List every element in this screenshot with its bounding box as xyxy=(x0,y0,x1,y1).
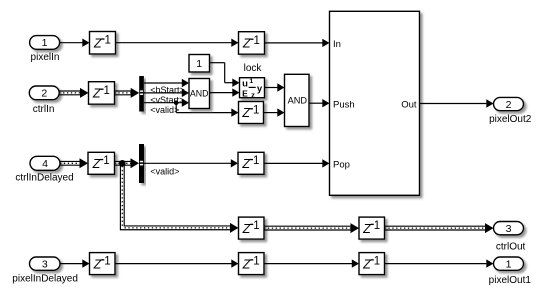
wire valid branch to delay Z3 xyxy=(176,103,238,117)
svg-text:1: 1 xyxy=(253,104,259,116)
svg-text:Z: Z xyxy=(362,222,371,236)
svg-text:Push: Push xyxy=(333,99,355,110)
signal label <vStart> xyxy=(150,95,184,105)
svg-text:1: 1 xyxy=(103,85,109,97)
inport 1 pixelIn xyxy=(30,36,60,63)
svg-text:pixelOut1: pixelOut1 xyxy=(489,275,532,286)
svg-text:Z: Z xyxy=(93,257,102,271)
svg-text:ctrlIn: ctrlIn xyxy=(33,104,55,115)
inport 4 ctrlInDelayed xyxy=(15,156,73,183)
wire Z1 to delay lock xyxy=(116,39,239,47)
svg-text:4: 4 xyxy=(42,158,48,170)
svg-text:1: 1 xyxy=(42,37,48,49)
wire hStart to AND1 input 1 xyxy=(144,79,189,87)
wire valid2 to delay Z5 xyxy=(144,159,238,167)
svg-text:y: y xyxy=(257,83,263,94)
svg-text:AND: AND xyxy=(288,95,308,105)
outport 2 pixelOut2 xyxy=(489,97,532,125)
wire valid to AND1 input 3 xyxy=(144,99,189,107)
junction valid branch xyxy=(174,100,179,105)
svg-text:1: 1 xyxy=(196,58,202,70)
svg-text:1: 1 xyxy=(253,155,259,167)
svg-text:Z: Z xyxy=(242,37,251,51)
svg-text:Z: Z xyxy=(241,106,250,120)
signal label <valid> 2 xyxy=(150,166,179,176)
svg-text:<valid>: <valid> xyxy=(150,105,179,115)
svg-text:1: 1 xyxy=(374,220,380,232)
wire AND1 to enabled-delay E port xyxy=(210,88,240,96)
bus wire Z6 to delay Z7 xyxy=(264,223,359,233)
svg-text:1: 1 xyxy=(253,255,259,267)
svg-text:z: z xyxy=(251,90,255,99)
signal label <valid> xyxy=(150,105,179,115)
svg-text:2: 2 xyxy=(506,99,512,111)
svg-text:Z: Z xyxy=(241,157,250,171)
svg-text:1: 1 xyxy=(249,78,253,85)
svg-text:In: In xyxy=(333,39,341,50)
svg-text:1: 1 xyxy=(374,255,380,267)
enabled delay block (u E z y) xyxy=(240,78,265,100)
wire lock to subsystem In xyxy=(265,39,330,47)
inport 2 ctrlIn xyxy=(29,86,59,115)
delay Z3 (valid delay) xyxy=(239,102,264,124)
signal label <hStart> xyxy=(150,85,185,95)
svg-text:Z: Z xyxy=(362,257,371,271)
svg-text:3: 3 xyxy=(42,258,48,270)
wire enabled-delay y to AND2 input 1 xyxy=(265,83,285,91)
delay Z2 xyxy=(89,82,115,105)
constant 1 xyxy=(189,55,210,73)
junction bus branch xyxy=(119,160,126,167)
outport 3 ctrlOut xyxy=(494,222,526,253)
svg-text:pixelIn: pixelIn xyxy=(31,52,60,63)
svg-text:Z: Z xyxy=(93,36,102,50)
svg-text:1: 1 xyxy=(103,155,109,167)
svg-text:3: 3 xyxy=(506,223,512,235)
subsystem FIFO (In Push Pop / Out) xyxy=(330,11,420,195)
bus wire ctrlInDelayed to delay Z4 xyxy=(60,158,88,168)
svg-text:1: 1 xyxy=(104,35,110,47)
svg-text:Z: Z xyxy=(242,222,251,236)
svg-text:AND: AND xyxy=(190,89,209,99)
bus selector 2 xyxy=(139,144,144,183)
bus wire Z4 to bus selector 2 xyxy=(115,158,140,168)
logical operator AND2 xyxy=(285,74,310,126)
wire Z8 to delay Z9 xyxy=(115,259,239,267)
delay Z7 xyxy=(359,217,385,239)
bus wire Z7 to outport ctrlOut xyxy=(385,223,494,233)
svg-text:<vStart>: <vStart> xyxy=(150,95,184,105)
svg-text:Z: Z xyxy=(242,257,251,271)
svg-text:1: 1 xyxy=(506,258,512,270)
wire constant to enabled-delay u port xyxy=(210,63,240,87)
svg-text:1: 1 xyxy=(253,220,259,232)
inport 3 pixelInDelayed xyxy=(12,257,78,285)
delay Z1 xyxy=(90,32,116,55)
svg-text:Z: Z xyxy=(92,157,101,171)
wire Z3 to AND2 input 2 xyxy=(264,108,285,116)
delay Z6 xyxy=(239,217,265,239)
delay Z10 xyxy=(359,253,385,275)
delay Z8 xyxy=(90,253,116,275)
logical operator AND1 xyxy=(189,79,210,109)
svg-text:2: 2 xyxy=(41,88,47,100)
wire AND2 to subsystem Push xyxy=(309,99,330,107)
svg-text:E: E xyxy=(242,88,248,98)
svg-text:Pop: Pop xyxy=(333,159,350,170)
outport 1 pixelOut1 xyxy=(489,257,532,286)
svg-text:ctrlOut: ctrlOut xyxy=(496,241,526,252)
svg-text:1: 1 xyxy=(104,255,110,267)
bus selector 1 xyxy=(139,76,144,112)
wire subsystem Out to outport pixelOut2 xyxy=(420,99,494,107)
svg-text:Z: Z xyxy=(92,87,101,101)
svg-text:ctrlInDelayed: ctrlInDelayed xyxy=(15,172,73,183)
svg-text:pixelInDelayed: pixelInDelayed xyxy=(12,274,78,285)
svg-text:Out: Out xyxy=(401,99,417,110)
bus wire ctrlIn to delay Z2 xyxy=(59,88,88,98)
wire pixelInDelayed to delay Z8 xyxy=(60,259,90,267)
delay lock (Z^-1) xyxy=(239,32,265,74)
wire Z5 to subsystem Pop xyxy=(264,159,330,167)
bus wire branch down to ctrlOut row xyxy=(120,163,238,233)
wire Z9 to delay Z10 xyxy=(264,259,359,267)
svg-text:1: 1 xyxy=(253,35,259,47)
delay Z5 xyxy=(238,152,264,174)
bus wire Z2 to bus selector xyxy=(115,88,140,98)
delay Z9 xyxy=(239,253,265,275)
svg-text:pixelOut2: pixelOut2 xyxy=(489,114,532,125)
svg-text:lock: lock xyxy=(244,63,263,74)
wire pixelIn to delay Z1 xyxy=(60,39,90,47)
svg-text:<valid>: <valid> xyxy=(150,166,179,176)
wire Z10 to outport pixelOut1 xyxy=(385,259,494,267)
delay Z4 xyxy=(88,152,115,174)
wire vStart to AND1 input 2 xyxy=(144,89,189,97)
